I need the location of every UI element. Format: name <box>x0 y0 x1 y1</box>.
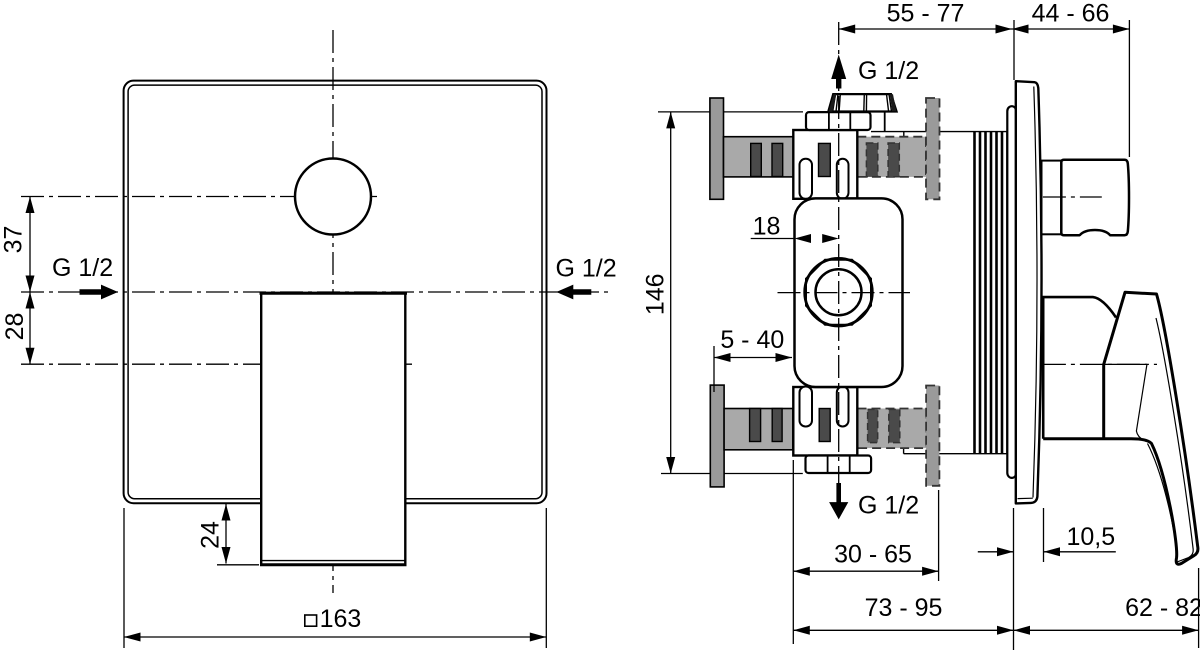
lower column clamp bar <box>819 409 830 442</box>
dimension 73 - 95 <box>793 594 1013 635</box>
G 1/2 flow arrow right <box>556 285 591 300</box>
valve body <box>795 198 903 387</box>
lower right wall flange (dashed) <box>926 386 939 486</box>
G 1/2 outlet arrow top <box>831 55 846 89</box>
svg-text:G 1/2: G 1/2 <box>52 254 113 282</box>
escutcheon inner bottom line <box>1018 497 1033 499</box>
control knob circle <box>295 159 371 235</box>
dimension 24 <box>196 504 259 565</box>
escutcheon plate inner border <box>128 85 542 499</box>
lever underside edge line <box>1136 365 1147 442</box>
svg-text:62 - 82: 62 - 82 <box>1125 594 1200 622</box>
cartridge octagon nut <box>806 260 871 325</box>
valve upper column <box>793 130 857 199</box>
upper right pipe clamp blocks (dashed) <box>866 143 877 177</box>
upper left supply pipe <box>724 137 794 177</box>
escutcheon dome inner line <box>1033 87 1037 498</box>
threaded tube <box>975 132 1008 453</box>
wall plane extension line <box>1013 508 1015 650</box>
horizontal centerline cartridge <box>778 292 911 294</box>
lower right hidden pipe (dashed) <box>858 409 927 449</box>
vertical centerline valve <box>838 22 840 483</box>
lever tip inner line <box>1177 550 1194 563</box>
lower column slot right <box>837 387 849 427</box>
handle base cylinder <box>1061 160 1129 236</box>
lever underside long edge <box>1148 444 1177 552</box>
svg-text:44 - 66: 44 - 66 <box>1032 0 1110 28</box>
vertical centerline plate <box>332 30 334 593</box>
svg-text:G 1/2: G 1/2 <box>556 255 617 283</box>
dimension 62 - 82 <box>1014 568 1200 648</box>
cartridge inner circle <box>816 269 862 315</box>
dimension 28 <box>1 292 35 364</box>
svg-text:30 - 65: 30 - 65 <box>834 541 912 569</box>
cartridge outer circle <box>805 258 873 326</box>
svg-text:24: 24 <box>196 521 224 549</box>
dimension square 163 <box>124 508 546 648</box>
G 1/2 outlet arrow bottom <box>829 483 848 519</box>
body silhouette top/bottom lines (threaded housing) <box>871 131 1007 133</box>
lever blade inner edge line <box>1156 318 1193 550</box>
lower left wall flange <box>710 385 724 487</box>
svg-text:10,5: 10,5 <box>1067 523 1116 551</box>
upper column slot right <box>837 159 849 199</box>
lever axis centerline <box>1043 363 1157 365</box>
bottom hex plug <box>806 456 872 474</box>
svg-text:55 - 77: 55 - 77 <box>887 0 965 28</box>
dimension 44 - 66 <box>1012 0 1129 157</box>
dimension 146 <box>641 112 803 474</box>
dimension 18 <box>751 213 839 244</box>
dimension 5 - 40 <box>714 326 792 392</box>
svg-text:G 1/2: G 1/2 <box>858 57 919 85</box>
upper left pipe clamp blocks <box>751 143 762 176</box>
dimension 10,5 <box>978 508 1116 562</box>
dimension 55 - 77 <box>839 0 1014 34</box>
svg-text:37: 37 <box>0 226 28 254</box>
svg-text:163: 163 <box>320 605 362 633</box>
lower column slot left <box>800 387 813 427</box>
horizontal centerline inlet axis <box>21 291 612 293</box>
lower left pipe clamp blocks <box>750 409 761 442</box>
handle cylinder centerline <box>1043 196 1102 198</box>
escutcheon plate outer border <box>124 81 547 504</box>
G 1/2 flow arrow left <box>80 285 119 300</box>
dimension 30 - 65 <box>793 460 938 644</box>
lower left supply pipe <box>724 409 793 450</box>
svg-text:18: 18 <box>753 213 781 241</box>
lever blade outline <box>1043 292 1198 564</box>
handle neck <box>1042 161 1062 235</box>
upper left wall flange <box>710 98 724 199</box>
top knurled check-valve cap <box>828 94 896 111</box>
svg-text:146: 146 <box>641 273 669 315</box>
lower right pipe clamp blocks (dashed) <box>868 409 878 442</box>
valve lower column <box>793 387 857 456</box>
lever hub and blade silhouette <box>1043 292 1198 564</box>
svg-text:28: 28 <box>1 313 29 341</box>
upper column slot left <box>800 159 813 199</box>
svg-text:73 - 95: 73 - 95 <box>865 594 943 622</box>
escutcheon mounting sleeve (side) <box>1007 106 1016 478</box>
upper column clamp bar <box>819 143 831 176</box>
escutcheon plate side profile <box>1016 81 1042 503</box>
dimension 37 <box>0 197 35 293</box>
svg-text:G 1/2: G 1/2 <box>858 492 919 520</box>
horizontal centerline circle axis <box>21 196 378 198</box>
lever handle front view <box>260 292 408 565</box>
upper right wall flange (dashed) <box>926 98 940 199</box>
lever hub outline <box>1043 297 1116 439</box>
horizontal centerline handle axis <box>21 363 412 365</box>
lever hub top edge at axis <box>1104 363 1147 365</box>
upper right hidden pipe (dashed) <box>857 137 926 177</box>
top hex nut <box>806 112 885 131</box>
svg-text:5 - 40: 5 - 40 <box>720 326 784 354</box>
